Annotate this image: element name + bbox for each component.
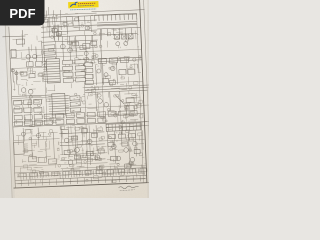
svg-text:PDF: PDF: [9, 6, 35, 21]
